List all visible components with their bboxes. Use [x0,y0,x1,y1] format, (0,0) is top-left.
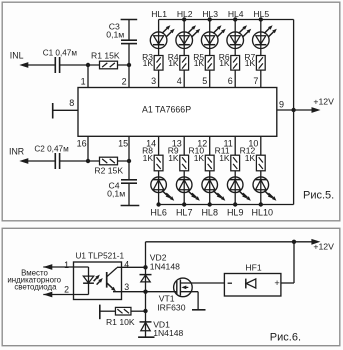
resistor R4 [180,56,189,71]
svg-text:1N4148: 1N4148 [150,261,180,271]
LED HL4 [227,32,244,49]
svg-text:HL3: HL3 [202,9,218,19]
wire pin 1 [87,65,89,88]
wire R11 to HL9 [234,171,236,205]
wire gate VT1 [146,291,177,293]
panel border Fig.6 [2,228,340,345]
junction top rail HL2 [182,17,186,21]
wire R5 to pin 5 [209,70,211,87]
LED HL3 [201,32,218,49]
wire R8 to HL6 [158,171,160,205]
svg-text:HL8: HL8 [201,207,218,217]
svg-text:1K: 1K [194,58,205,68]
wire +12V arrow Fig.6 [294,241,313,243]
wire top rail [159,19,294,21]
diode inside HF1 [245,279,247,289]
svg-text:Рис.5.: Рис.5. [303,190,334,202]
LED HL9 [227,177,243,193]
svg-text:1K: 1K [168,153,179,163]
wire right rail [293,20,295,205]
svg-text:Рис.6.: Рис.6. [270,331,301,343]
wire pin 1 U1 [43,266,88,268]
svg-text:7: 7 [253,76,258,86]
phototransistor inside U1 [106,272,108,288]
junction pin15/INR [127,159,131,163]
svg-text:+: + [274,278,279,288]
svg-text:15: 15 [118,138,128,148]
wire R9 to HL7 [183,171,185,205]
terminal bar C4 bottom [121,205,140,207]
svg-text:C2 0,47м: C2 0,47м [34,144,69,153]
svg-text:INL: INL [10,51,24,61]
terminal bar R1 left [99,305,101,320]
LED HL6 [151,177,167,193]
svg-text:R1 15K: R1 15K [91,50,120,60]
junction pin 3 / VD2 [143,290,147,294]
wire C2 to pin15 node [60,160,129,162]
svg-text:IRF630: IRF630 [157,303,185,313]
resistor R10 [205,155,214,171]
resistor R9 [180,155,189,171]
wire rail to HL2 [183,20,185,56]
svg-text:светодиода: светодиода [14,283,57,292]
svg-text:1K: 1K [168,58,179,68]
svg-text:C1 0,47м: C1 0,47м [43,48,78,57]
junction bottom rail HL7 [182,202,186,206]
wire rail to HL4 [234,20,236,56]
node arrow pin 1 [43,264,52,270]
terminal bar pin 8 [52,103,54,119]
node INR arrow [19,158,28,164]
terminal bar VD1 bottom [138,336,154,338]
svg-text:1N4148: 1N4148 [153,328,183,338]
wire +12V rail Fig.6 [146,241,295,243]
junction top rail HL4 [233,17,237,21]
svg-text:2: 2 [64,285,69,295]
terminal bar C3 top [121,19,138,21]
junction bottom rail HL8 [208,202,212,206]
svg-text:HL5: HL5 [253,9,269,19]
svg-text:1K: 1K [245,153,256,163]
wire R6 to pin 6 [234,70,236,87]
svg-text:1K: 1K [143,153,154,163]
svg-text:INR: INR [9,147,24,157]
HF1 minus terminal [228,282,232,284]
svg-text:1K: 1K [194,153,205,163]
svg-text:U1 TLP521-1: U1 TLP521-1 [76,251,125,260]
LED HL5 [252,32,269,49]
wire pin 15 [128,136,130,161]
svg-text:16: 16 [77,138,87,148]
wire pin 10 to R12 [260,136,262,155]
node INL arrow [19,62,28,68]
diode VD1 [145,311,147,337]
wire pin 9 stub [277,109,294,111]
transistor VT1 IRF630 [174,278,193,297]
capacitor C4 [128,161,130,180]
wire +12V rail down to VD2 [145,242,147,292]
resistor R8 [154,155,163,171]
terminal bar VT1 source [192,309,206,311]
wire pin 16 [87,136,89,161]
wire R7 to pin 7 [260,70,262,87]
relay HF1 box [224,274,281,297]
wire +12V arrow Fig.5 [294,109,313,111]
LED HL7 [176,177,192,193]
svg-text:HL7: HL7 [176,207,193,217]
wire R4 to pin 4 [183,70,185,87]
wire bottom rail [159,204,294,206]
svg-text:2: 2 [122,76,127,86]
wire pin 11 to R11 [234,136,236,155]
wire R3 to pin 3 [158,70,160,87]
resistor R2 [100,157,118,165]
panel border Fig.5 [2,2,340,221]
LED HL8 [202,177,218,193]
svg-text:HL6: HL6 [150,207,167,217]
wire C1 to pin2 node [60,64,129,66]
resistor R1 (Fig.6) [115,307,131,315]
junction pin 4 / VD2 [143,265,147,269]
junction R1 / VD1 [143,309,147,313]
light arrows U1 [94,278,97,281]
svg-text:HL1: HL1 [151,9,167,19]
LED HL2 [176,32,193,49]
svg-text:6: 6 [228,76,233,86]
svg-text:3: 3 [151,76,156,86]
svg-text:8: 8 [69,98,74,108]
svg-text:R1 10K: R1 10K [106,317,135,327]
junction top rail HL3 [208,17,212,21]
wire pin 2 [128,65,130,88]
svg-text:3: 3 [124,282,129,292]
junction +12V rail pin 9 [291,108,295,112]
svg-text:4: 4 [177,76,182,86]
junction pin2/INL [127,63,131,67]
junction bottom rail HL10 [259,202,263,206]
node arrow pin 2 [43,292,52,298]
svg-text:+12V: +12V [313,97,334,107]
svg-text:1: 1 [81,76,86,86]
capacitor C1 [54,57,56,73]
wire R12 to HL10 [260,171,262,205]
wire INR to C2 [27,160,56,162]
wire pin 14 to R8 [158,136,160,155]
junction +12V Fig.6 [292,240,296,244]
svg-text:0,1м: 0,1м [106,30,124,40]
IC A1 TA7666P [78,88,277,137]
wire R10 to HL8 [209,171,211,205]
svg-text:1: 1 [64,260,69,270]
svg-text:1K: 1K [143,58,154,68]
wire pin 2 U1 [43,294,88,296]
wire pin 13 to R9 [183,136,185,155]
wire pin 8 stub [53,109,78,111]
junction pin16/INR [86,159,90,163]
resistor R3 [154,56,163,71]
svg-text:0,1м: 0,1м [107,189,125,199]
resistor R12 [256,155,265,171]
wire rail to HL1 [158,20,160,56]
wire VT1 source down [197,292,199,310]
wire rail to HL5 [260,20,262,56]
svg-text:HL4: HL4 [228,9,244,19]
wire pin 3 U1 to gate node [113,291,146,293]
junction bottom rail HL6 [156,202,160,206]
junction top rail HL5 [259,17,263,21]
svg-text:1K: 1K [219,58,230,68]
wire rail to HL3 [209,20,211,56]
capacitor C3 [128,44,130,65]
junction pin1/INL [86,63,90,67]
resistor R1 [100,61,118,69]
svg-text:1K: 1K [219,153,230,163]
capacitor C2 [54,153,56,169]
wire pin 12 to R10 [209,136,211,155]
resistor R7 [256,56,265,71]
LED inside U1 [88,267,90,295]
LED HL1 [150,32,167,49]
svg-text:1K: 1K [245,58,256,68]
svg-text:HL10: HL10 [252,207,274,217]
wire HF1 to +12V rail [281,282,294,284]
LED HL10 [253,177,269,193]
svg-text:9: 9 [279,99,284,109]
wire R1 right [131,310,146,312]
diode VD2 [140,274,152,276]
svg-text:HF1: HF1 [245,263,261,273]
svg-text:HL9: HL9 [227,207,244,217]
resistor R5 [205,56,214,71]
resistor R6 [231,56,240,71]
wire VD2 to R1 node [145,292,147,311]
wire INL to C1 [27,64,56,66]
svg-text:5: 5 [202,76,207,86]
wire R1 left [100,310,116,312]
resistor R11 [231,155,240,171]
junction bottom rail HL9 [233,202,237,206]
svg-text:R2 15K: R2 15K [94,166,123,176]
svg-text:A1 TA7666P: A1 TA7666P [142,105,191,115]
optocoupler U1 TLP521-1 box [74,262,122,300]
svg-text:HL2: HL2 [177,9,193,19]
svg-text:+12V: +12V [313,242,334,252]
